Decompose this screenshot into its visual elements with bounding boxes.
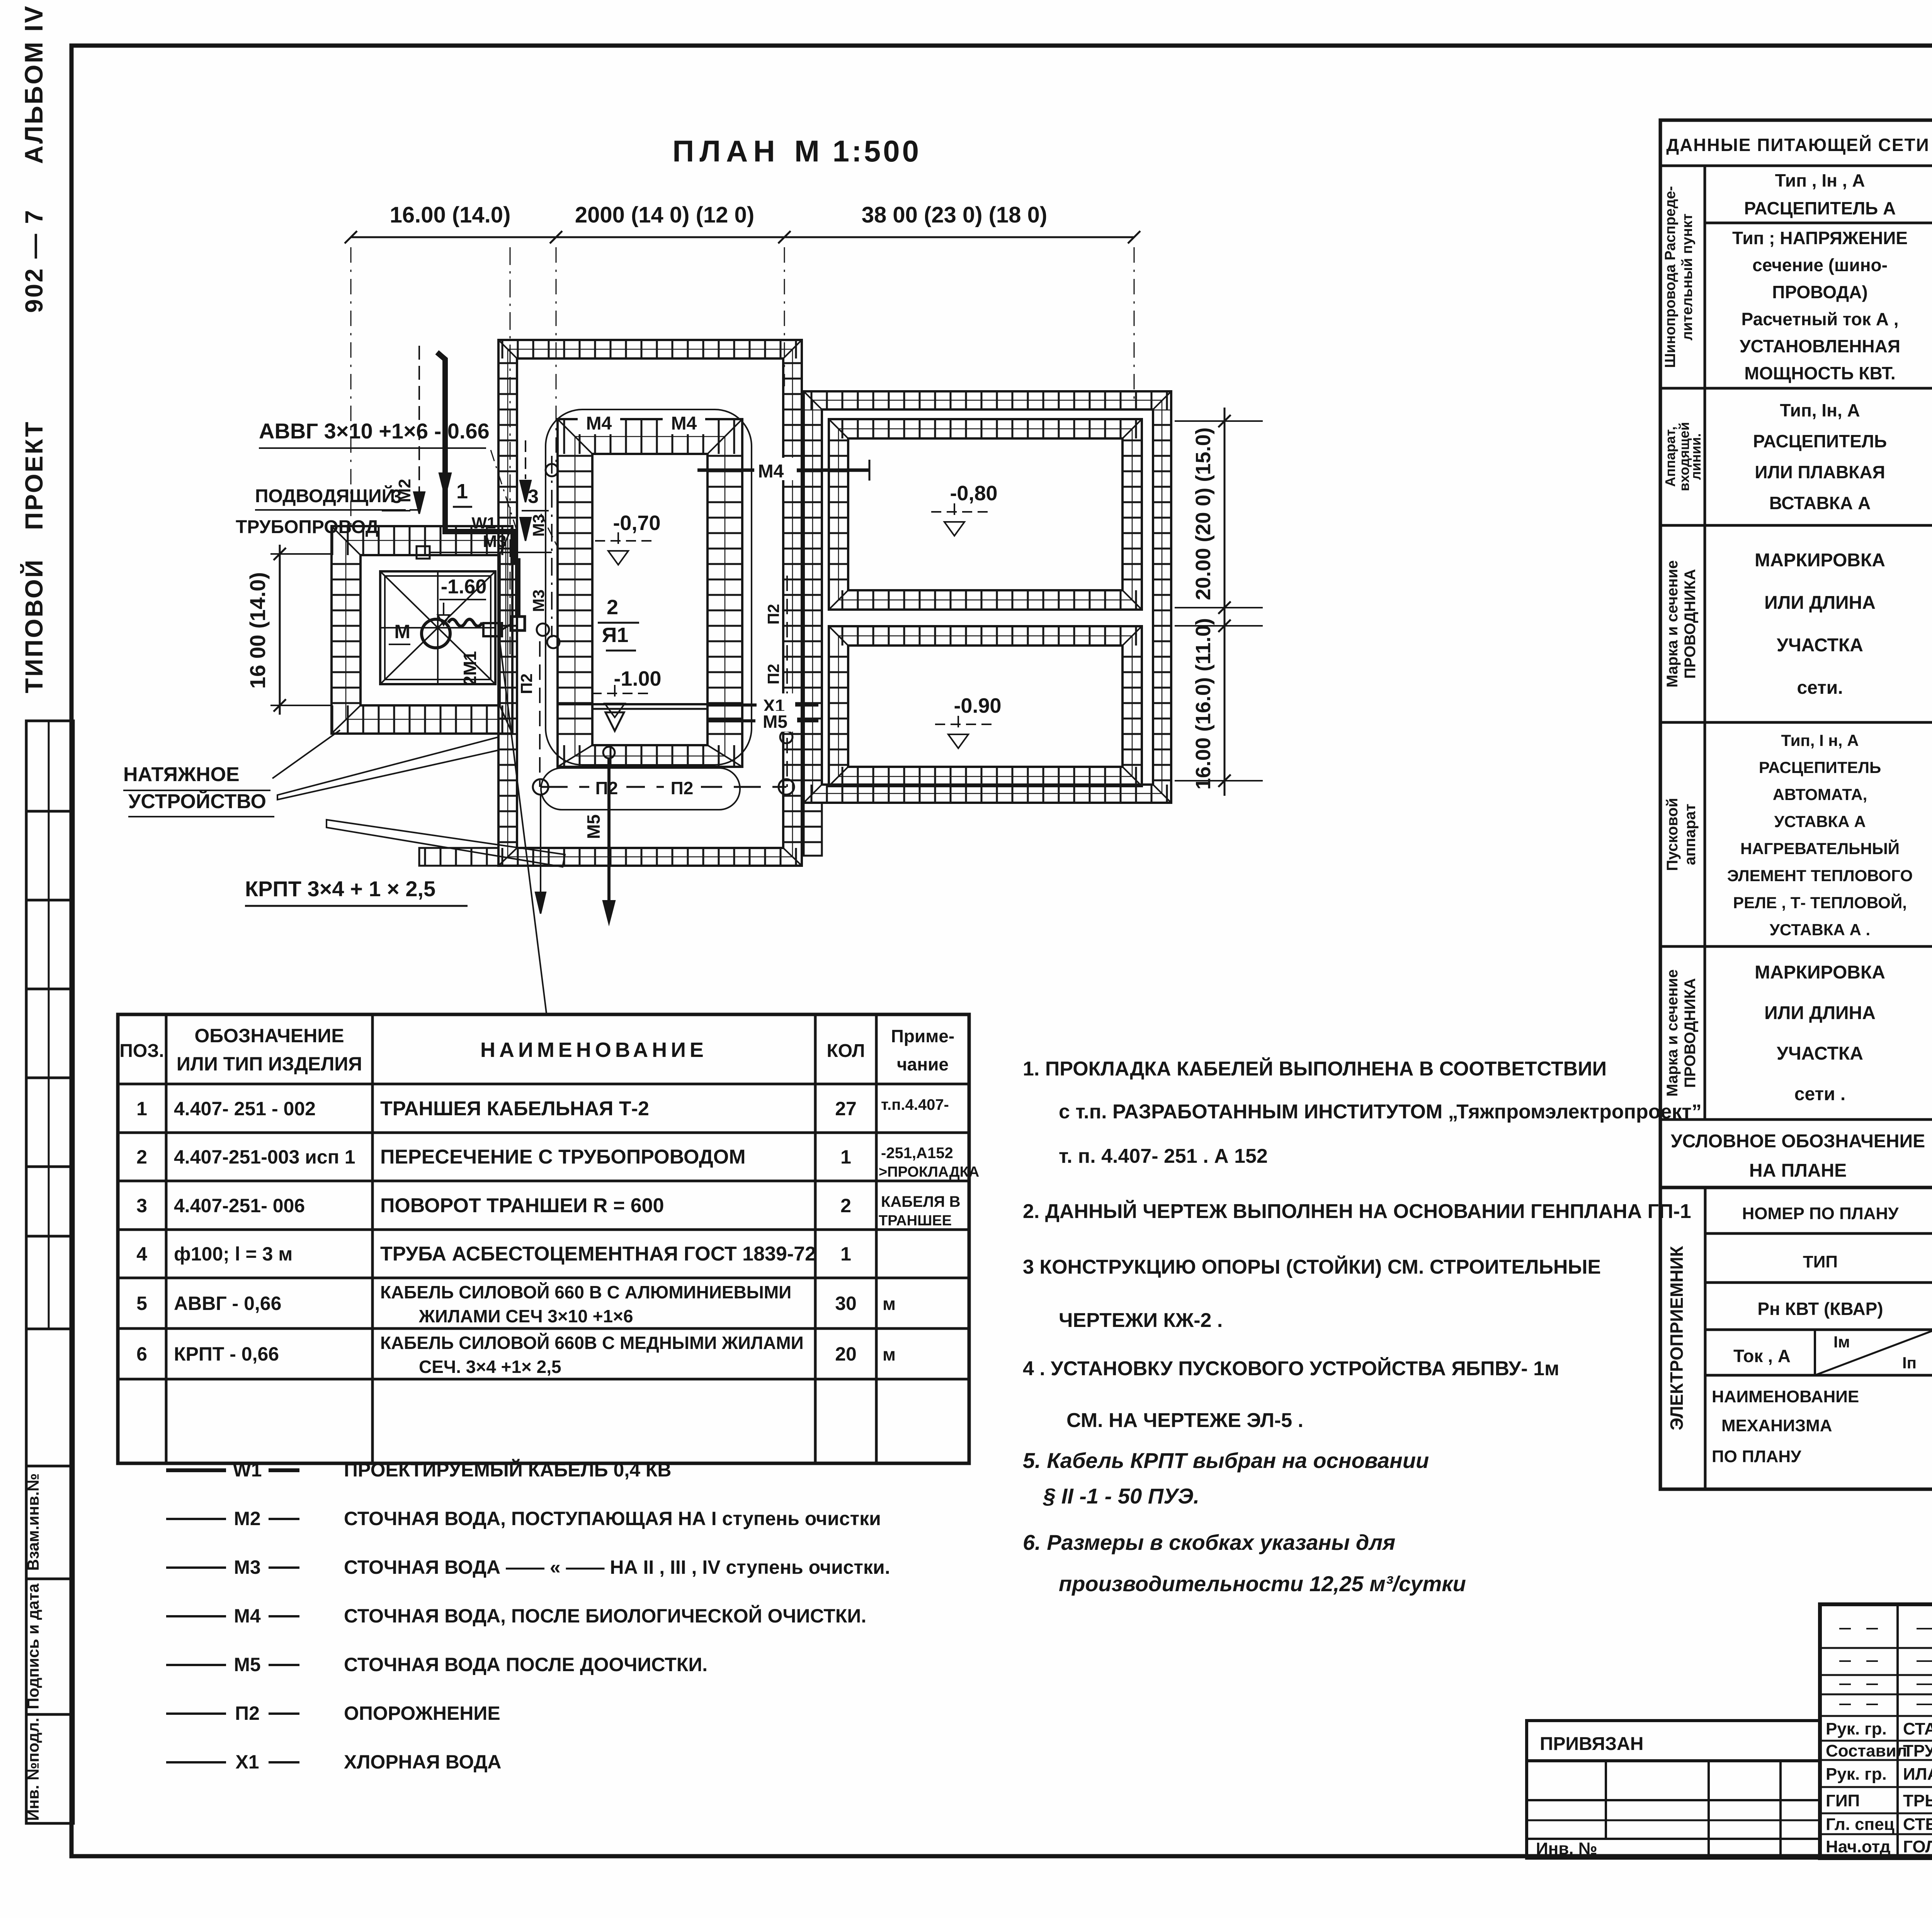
left drain arrow bbox=[540, 795, 541, 892]
svg-text:1: 1 bbox=[840, 1146, 851, 1168]
svg-text:АВВГ 3×10 +1×6 - 0.66: АВВГ 3×10 +1×6 - 0.66 bbox=[259, 419, 490, 443]
M5 crossing line bbox=[707, 719, 818, 722]
svg-text:4.407-251-003 исп 1: 4.407-251-003 исп 1 bbox=[174, 1146, 355, 1168]
svg-text:ТРАНШЕЯ КАБЕЛЬНАЯ Т-2: ТРАНШЕЯ КАБЕЛЬНАЯ Т-2 bbox=[380, 1097, 649, 1120]
specification table bbox=[118, 1014, 969, 1463]
top dimension line bbox=[351, 236, 1134, 238]
cable W1 thick run bbox=[437, 352, 518, 617]
svg-text:5. Кабель КРПТ выбран на ос: 5. Кабель КРПТ выбран на основании bbox=[1023, 1448, 1429, 1473]
svg-text:М4: М4 bbox=[234, 1605, 261, 1627]
svg-text:с т.п. РАЗРАБОТАННЫМ ИНСТИТ: с т.п. РАЗРАБОТАННЫМ ИНСТИТУТОМ „Тяжпром… bbox=[1059, 1101, 1702, 1123]
svg-text:ТРЫХАНКИНА: ТРЫХАНКИНА bbox=[1903, 1791, 1932, 1810]
svg-text:производительности 12,25 м³/су: производительности 12,25 м³/сутки bbox=[1059, 1571, 1466, 1596]
svg-text:М3: М3 bbox=[529, 514, 548, 537]
right dimension 20.00 bbox=[1224, 408, 1226, 796]
svg-text:1. ПРОКЛАДКА КАБЕЛЕЙ ВЫПОЛН: 1. ПРОКЛАДКА КАБЕЛЕЙ ВЫПОЛНЕНА В СООТВЕТ… bbox=[1023, 1057, 1607, 1080]
margin cell Взам.инв.№ bbox=[26, 1329, 73, 1466]
svg-text:30: 30 bbox=[835, 1293, 857, 1314]
svg-text:Составил: Составил bbox=[1826, 1741, 1907, 1760]
legend line М4 bbox=[166, 1615, 226, 1617]
svg-text:16 00 (14.0): 16 00 (14.0) bbox=[245, 572, 270, 689]
svg-text:ИЛАРИОНОВА: ИЛАРИОНОВА bbox=[1903, 1765, 1932, 1784]
M3 vertical line bbox=[551, 456, 553, 637]
svg-text:ГОЛЬЦМАН: ГОЛЬЦМАН bbox=[1903, 1837, 1932, 1856]
svg-text:Тип, I н, А: Тип, I н, А bbox=[1781, 731, 1859, 749]
cable trench line bbox=[500, 643, 547, 1016]
svg-text:СТОЧНАЯ ВОДА —— « —— НА II: СТОЧНАЯ ВОДА —— « —— НА II , III , IV ст… bbox=[344, 1556, 890, 1578]
svg-text:4: 4 bbox=[136, 1243, 147, 1265]
svg-text:38 00 (23 0) (18 0): 38 00 (23 0) (18 0) bbox=[862, 202, 1047, 228]
svg-text:М: М bbox=[394, 621, 410, 642]
svg-text:2. ДАННЫЙ ЧЕРТЕЖ ВЫПОЛНЕН: 2. ДАННЫЙ ЧЕРТЕЖ ВЫПОЛНЕН НА ОСНОВАНИИ Г… bbox=[1023, 1200, 1691, 1223]
link 2M1 to W1 bbox=[502, 624, 511, 630]
svg-text:2: 2 bbox=[136, 1146, 147, 1168]
svg-text:-1.00: -1.00 bbox=[614, 667, 661, 690]
svg-text:ПРОВОДНИКА: ПРОВОДНИКА bbox=[1682, 569, 1699, 679]
svg-text:СТАНКЕВИЧ: СТАНКЕВИЧ bbox=[1903, 1719, 1932, 1738]
svg-text:-1.60: -1.60 bbox=[441, 576, 487, 598]
row Нач.отд bbox=[1820, 1857, 1932, 1859]
svg-text:Рук. гр.: Рук. гр. bbox=[1826, 1765, 1887, 1784]
svg-text:УЧАСТКА: УЧАСТКА bbox=[1777, 635, 1863, 656]
svg-text:КОЛ: КОЛ bbox=[827, 1041, 865, 1061]
svg-text:2000 (14 0) (12 0): 2000 (14 0) (12 0) bbox=[575, 202, 754, 228]
svg-text:МАРКИРОВКА: МАРКИРОВКА bbox=[1755, 550, 1885, 571]
motor M1 circle bbox=[422, 619, 450, 648]
svg-text:Нач.отд: Нач.отд bbox=[1826, 1837, 1891, 1856]
legend line М2 bbox=[166, 1518, 226, 1520]
M3 drop arrow bbox=[525, 440, 526, 479]
legend line М3 bbox=[166, 1566, 226, 1569]
legend line М5 bbox=[166, 1664, 226, 1666]
svg-text:4 . УСТАНОВКУ ПУСКОВОГО УСТРОЙ: 4 . УСТАНОВКУ ПУСКОВОГО УСТРОЙСТВА ЯБПВУ… bbox=[1023, 1357, 1560, 1380]
svg-text:W1: W1 bbox=[472, 514, 496, 532]
P2 drain channel bbox=[541, 768, 740, 810]
svg-text:РЕЛЕ , Т- ТЕПЛОВОЙ,: РЕЛЕ , Т- ТЕПЛОВОЙ, bbox=[1733, 893, 1907, 912]
svg-text:ПЛАН: ПЛАН bbox=[672, 134, 780, 168]
P2 vertical left bbox=[539, 641, 541, 787]
svg-text:Х1: Х1 bbox=[235, 1751, 259, 1773]
svg-text:Шинопровода Распреде-: Шинопровода Распреде- bbox=[1662, 186, 1679, 368]
svg-text:М5: М5 bbox=[234, 1654, 260, 1675]
basin 2-Я1 wall bbox=[558, 419, 742, 454]
svg-text:УСТАВКА А .: УСТАВКА А . bbox=[1770, 921, 1870, 939]
wavy cable from M1 to 2M1 bbox=[448, 619, 482, 626]
svg-text:линии.: линии. bbox=[1688, 433, 1704, 480]
svg-text:3: 3 bbox=[136, 1195, 147, 1216]
svg-text:ИЛИ ПЛАВКАЯ: ИЛИ ПЛАВКАЯ bbox=[1755, 462, 1885, 482]
svg-text:ТИПОВОЙ: ТИПОВОЙ bbox=[20, 558, 48, 693]
right structure outer wall bbox=[804, 391, 1171, 409]
svg-text:П2: П2 bbox=[764, 604, 782, 625]
svg-text:ПРОВОДА): ПРОВОДА) bbox=[1772, 282, 1867, 302]
left basin diagonals bbox=[380, 571, 495, 684]
svg-text:ИЛИ ДЛИНА: ИЛИ ДЛИНА bbox=[1764, 593, 1876, 613]
svg-text:М2: М2 bbox=[234, 1508, 260, 1529]
svg-text:УСТРОЙСТВО: УСТРОЙСТВО bbox=[128, 790, 266, 813]
svg-text:НАГРЕВАТЕЛЬНЫЙ: НАГРЕВАТЕЛЬНЫЙ bbox=[1740, 839, 1900, 858]
P2 line between structures bbox=[786, 576, 788, 787]
svg-text:УСТАНОВЛЕННАЯ: УСТАНОВЛЕННАЯ bbox=[1740, 336, 1900, 356]
svg-text:ОБОЗНАЧЕНИЕ: ОБОЗНАЧЕНИЕ bbox=[194, 1025, 344, 1046]
svg-text:т.п.4.407-: т.п.4.407- bbox=[881, 1096, 949, 1113]
svg-text:МОЩНОСТЬ КВТ.: МОЩНОСТЬ КВТ. bbox=[1744, 363, 1895, 383]
feeding network table bbox=[1660, 120, 1932, 1187]
svg-text:2: 2 bbox=[840, 1195, 851, 1216]
svg-text:П2: П2 bbox=[764, 664, 782, 685]
svg-text:-0,80: -0,80 bbox=[950, 482, 997, 505]
M3 line from pit bbox=[429, 552, 552, 553]
svg-text:НА ПЛАНЕ: НА ПЛАНЕ bbox=[1749, 1160, 1847, 1181]
row Составил bbox=[1820, 1759, 1932, 1761]
svg-text:СТЕПАНЕНКО: СТЕПАНЕНКО bbox=[1903, 1815, 1932, 1834]
M2 riser bbox=[418, 346, 420, 506]
X1 crossing line bbox=[707, 703, 818, 707]
legend line П2 bbox=[166, 1712, 226, 1715]
svg-text:4.407-251- 006: 4.407-251- 006 bbox=[174, 1195, 305, 1216]
middle structure outer wall bbox=[498, 340, 802, 358]
svg-text:МАРКИРОВКА: МАРКИРОВКА bbox=[1755, 962, 1885, 983]
svg-text:1: 1 bbox=[840, 1243, 851, 1265]
row ГИП bbox=[1820, 1813, 1932, 1814]
svg-text:лительный пункт: лительный пункт bbox=[1679, 214, 1696, 341]
svg-text:ПОЗ.: ПОЗ. bbox=[119, 1041, 164, 1061]
svg-text:РАСЦЕПИТЕЛЬ: РАСЦЕПИТЕЛЬ bbox=[1753, 431, 1887, 451]
svg-text:РАСЦЕПИТЕЛЬ А: РАСЦЕПИТЕЛЬ А bbox=[1744, 198, 1896, 218]
svg-text:М3: М3 bbox=[529, 590, 548, 612]
svg-text:Инв. №: Инв. № bbox=[1536, 1839, 1597, 1858]
svg-text:Марка и сечение: Марка и сечение bbox=[1664, 560, 1681, 688]
margin stamp boxes bbox=[26, 721, 73, 1329]
svg-text:ПОДВОДЯЩИЙ: ПОДВОДЯЩИЙ bbox=[255, 485, 395, 506]
svg-text:§ II -1 - 50 ПУЭ.: § II -1 - 50 ПУЭ. bbox=[1043, 1484, 1199, 1508]
row Рук. гр. bbox=[1820, 1740, 1932, 1742]
svg-text:1: 1 bbox=[136, 1098, 147, 1120]
arrow подводящий bbox=[410, 509, 419, 511]
svg-text:сети.: сети. bbox=[1797, 678, 1843, 698]
margin cell Инв.№подл. bbox=[26, 1714, 73, 1823]
svg-text:20.00 (20 0) (15.0): 20.00 (20 0) (15.0) bbox=[1192, 427, 1215, 600]
right structure wall tail bbox=[804, 803, 822, 856]
svg-text:СТОЧНАЯ ВОДА ПОСЛЕ ДООЧИСТК: СТОЧНАЯ ВОДА ПОСЛЕ ДООЧИСТКИ. bbox=[344, 1654, 707, 1675]
svg-text:СМ. НА ЧЕРТЕЖЕ ЭЛ-5 .: СМ. НА ЧЕРТЕЖЕ ЭЛ-5 . bbox=[1066, 1409, 1303, 1432]
svg-text:М4: М4 bbox=[758, 461, 784, 482]
svg-text:ПРОВОДНИКА: ПРОВОДНИКА bbox=[1682, 978, 1699, 1088]
svg-text:3: 3 bbox=[528, 486, 539, 507]
svg-text:РАСЦЕПИТЕЛЬ: РАСЦЕПИТЕЛЬ bbox=[1759, 758, 1881, 776]
svg-text:ПО ПЛАНУ: ПО ПЛАНУ bbox=[1712, 1447, 1801, 1466]
svg-text:6. Размеры в скобках указан: 6. Размеры в скобках указаны для bbox=[1023, 1530, 1395, 1554]
svg-text:АВВГ - 0,66: АВВГ - 0,66 bbox=[174, 1293, 281, 1314]
svg-text:>ПРОКЛАДКА: >ПРОКЛАДКА bbox=[879, 1164, 979, 1180]
svg-text:М3: М3 bbox=[483, 532, 506, 551]
svg-text:т. п. 4.407- 251 . А 152: т. п. 4.407- 251 . А 152 bbox=[1059, 1145, 1268, 1167]
svg-text:1: 1 bbox=[456, 480, 468, 503]
svg-text:ПРОЕКТИРУЕМЫЙ КАБЕЛЬ 0,4 КВ: ПРОЕКТИРУЕМЫЙ КАБЕЛЬ 0,4 КВ bbox=[344, 1459, 672, 1481]
svg-text:Тип, Iн, А: Тип, Iн, А bbox=[1780, 400, 1860, 420]
svg-text:П2: П2 bbox=[517, 673, 536, 694]
svg-text:ОПОРОЖНЕНИЕ: ОПОРОЖНЕНИЕ bbox=[344, 1702, 500, 1724]
svg-text:ЧЕРТЕЖИ КЖ-2 .: ЧЕРТЕЖИ КЖ-2 . bbox=[1059, 1309, 1223, 1332]
M4 crossing line bbox=[697, 469, 869, 472]
svg-text:Iм: Iм bbox=[1833, 1333, 1850, 1351]
svg-text:П2: П2 bbox=[671, 778, 694, 798]
svg-text:Приме-: Приме- bbox=[891, 1026, 954, 1046]
svg-text:СТОЧНАЯ ВОДА, ПОСЛЕ БИОЛОГИ: СТОЧНАЯ ВОДА, ПОСЛЕ БИОЛОГИЧЕСКОЙ ОЧИСТК… bbox=[344, 1605, 866, 1627]
svg-text:АВТОМАТА,: АВТОМАТА, bbox=[1773, 785, 1867, 804]
svg-text:Подпись и дата: Подпись и дата bbox=[24, 1583, 42, 1709]
svg-text:3 КОНСТРУКЦИЮ ОПОРЫ (СТОЙК: 3 КОНСТРУКЦИЮ ОПОРЫ (СТОЙКИ) СМ. СТРОИТЕ… bbox=[1023, 1255, 1601, 1278]
svg-text:Рн КВТ (КВАР): Рн КВТ (КВАР) bbox=[1757, 1299, 1883, 1319]
privyazan box bbox=[1527, 1721, 1820, 1761]
svg-text:аппарат: аппарат bbox=[1682, 804, 1699, 865]
svg-text:М5: М5 bbox=[763, 712, 787, 732]
svg-text:КРПТ 3×4 + 1 × 2,5: КРПТ 3×4 + 1 × 2,5 bbox=[245, 877, 435, 901]
bottom P2 run bbox=[541, 786, 786, 788]
legend line W1 bbox=[166, 1468, 226, 1472]
svg-text:-0.90: -0.90 bbox=[954, 694, 1001, 717]
leader wedges bbox=[277, 737, 498, 800]
svg-text:МЕХАНИЗМА: МЕХАНИЗМА bbox=[1721, 1416, 1832, 1435]
M5 outfall arrow bbox=[603, 747, 615, 758]
svg-text:ХЛОРНАЯ ВОДА: ХЛОРНАЯ ВОДА bbox=[344, 1751, 502, 1773]
svg-text:м: м bbox=[883, 1344, 896, 1364]
svg-text:Iп: Iп bbox=[1902, 1354, 1917, 1372]
svg-text:Взам.инв.№: Взам.инв.№ bbox=[24, 1473, 42, 1571]
svg-text:Ток , А: Ток , А bbox=[1733, 1346, 1791, 1366]
svg-text:НАИМЕНОВАНИЕ: НАИМЕНОВАНИЕ bbox=[480, 1038, 707, 1062]
svg-text:3: 3 bbox=[391, 486, 402, 507]
svg-text:Пусковой: Пусковой bbox=[1664, 798, 1681, 871]
svg-text:-0,70: -0,70 bbox=[613, 511, 660, 535]
svg-text:Марка и сечение: Марка и сечение bbox=[1664, 969, 1681, 1097]
svg-text:УСТАВКА А: УСТАВКА А bbox=[1774, 812, 1866, 831]
svg-text:Тип ; НАПРЯЖЕНИЕ: Тип ; НАПРЯЖЕНИЕ bbox=[1732, 228, 1908, 248]
svg-text:Тип , Iн , А: Тип , Iн , А bbox=[1775, 170, 1865, 190]
left dimension 16.00(14.0) bbox=[279, 545, 281, 715]
aerator 2M1 box bbox=[483, 623, 502, 636]
svg-text:ТИП: ТИП bbox=[1803, 1252, 1838, 1271]
svg-text:М4: М4 bbox=[586, 413, 612, 434]
svg-text:Инв. №подл.: Инв. №подл. bbox=[24, 1718, 42, 1821]
legend line Х1 bbox=[166, 1761, 226, 1763]
svg-text:УСЛОВНОЕ ОБОЗНАЧЕНИЕ: УСЛОВНОЕ ОБОЗНАЧЕНИЕ bbox=[1671, 1131, 1925, 1152]
svg-text:КАБЕЛЯ В: КАБЕЛЯ В bbox=[881, 1193, 961, 1210]
svg-text:М5: М5 bbox=[583, 814, 604, 839]
svg-text:ТРУШИНА: ТРУШИНА bbox=[1903, 1741, 1932, 1760]
svg-text:Я1: Я1 bbox=[602, 623, 629, 647]
svg-text:ЖИЛАМИ СЕЧ 3×10 +1×6: ЖИЛАМИ СЕЧ 3×10 +1×6 bbox=[418, 1306, 633, 1326]
svg-text:КАБЕЛЬ СИЛОВОЙ 660В С МЕДНЫМИ: КАБЕЛЬ СИЛОВОЙ 660В С МЕДНЫМИ ЖИЛАМИ bbox=[380, 1333, 804, 1353]
svg-text:Гл. спец: Гл. спец bbox=[1826, 1815, 1895, 1834]
svg-text:ЭЛЕМЕНТ ТЕПЛОВОГО: ЭЛЕМЕНТ ТЕПЛОВОГО bbox=[1727, 866, 1913, 885]
svg-text:27: 27 bbox=[835, 1098, 857, 1120]
svg-text:ТРУБОПРОВОД: ТРУБОПРОВОД bbox=[236, 517, 379, 537]
leader from АВВГ label bbox=[491, 450, 517, 531]
svg-text:М 1:500: М 1:500 bbox=[794, 134, 921, 168]
svg-text:6: 6 bbox=[136, 1343, 147, 1365]
svg-text:ГИП: ГИП bbox=[1826, 1791, 1860, 1810]
left basin outer embankment bbox=[332, 526, 512, 555]
svg-text:АЛЬБОМ IV: АЛЬБОМ IV bbox=[19, 5, 48, 164]
svg-text:м: м bbox=[883, 1294, 896, 1314]
svg-text:КРПТ - 0,66: КРПТ - 0,66 bbox=[174, 1343, 279, 1365]
svg-text:16.00 (16.0) (11.0): 16.00 (16.0) (11.0) bbox=[1192, 618, 1215, 790]
row Рук. гр. bbox=[1820, 1786, 1932, 1788]
svg-text:ПЕРЕСЕЧЕНИЕ С ТРУБОПРОВОДОМ: ПЕРЕСЕЧЕНИЕ С ТРУБОПРОВОДОМ bbox=[380, 1146, 746, 1168]
svg-text:КАБЕЛЬ СИЛОВОЙ 660 В С АЛЮМИНИ: КАБЕЛЬ СИЛОВОЙ 660 В С АЛЮМИНИЕВЫМИ bbox=[380, 1282, 791, 1302]
svg-text:СЕЧ. 3×4 +1× 2,5: СЕЧ. 3×4 +1× 2,5 bbox=[419, 1357, 561, 1377]
svg-text:М3: М3 bbox=[234, 1556, 260, 1578]
leader to pit corner bbox=[272, 730, 340, 778]
svg-text:20: 20 bbox=[835, 1343, 857, 1365]
svg-text:НОМЕР ПО ПЛАНУ: НОМЕР ПО ПЛАНУ bbox=[1742, 1204, 1899, 1223]
svg-text:УЧАСТКА: УЧАСТКА bbox=[1777, 1043, 1863, 1064]
consumer block bbox=[1660, 1187, 1932, 1489]
svg-text:902 — 7: 902 — 7 bbox=[20, 209, 48, 313]
svg-text:ПРОЕКТ: ПРОЕКТ bbox=[20, 420, 48, 530]
svg-text:4.407- 251 - 002: 4.407- 251 - 002 bbox=[174, 1098, 316, 1120]
M4 loop around basin bbox=[546, 409, 752, 765]
svg-text:ф100; l = 3 м: ф100; l = 3 м bbox=[174, 1243, 293, 1265]
svg-text:ИЛИ ДЛИНА: ИЛИ ДЛИНА bbox=[1764, 1003, 1876, 1023]
svg-text:2: 2 bbox=[607, 596, 618, 619]
svg-text:ТРАНШЕЕ: ТРАНШЕЕ bbox=[879, 1213, 952, 1229]
svg-text:П2: П2 bbox=[235, 1702, 260, 1724]
left basin wall bbox=[380, 571, 495, 684]
svg-text:НАТЯЖНОЕ: НАТЯЖНОЕ bbox=[123, 763, 240, 786]
svg-text:ПРИВЯЗАН: ПРИВЯЗАН bbox=[1540, 1734, 1643, 1754]
svg-text:П2: П2 bbox=[595, 778, 618, 798]
svg-text:ПОВОРОТ ТРАНШЕИ R = 600: ПОВОРОТ ТРАНШЕИ R = 600 bbox=[380, 1194, 664, 1217]
svg-text:5: 5 bbox=[136, 1293, 147, 1314]
svg-text:сечение (шино-: сечение (шино- bbox=[1752, 255, 1888, 275]
svg-text:-251,А152: -251,А152 bbox=[881, 1145, 953, 1162]
right lower pond wall bbox=[829, 626, 1142, 646]
svg-text:ВСТАВКА А: ВСТАВКА А bbox=[1769, 493, 1871, 513]
junction square on W1 bbox=[511, 617, 525, 630]
svg-text:НАИМЕНОВАНИЕ: НАИМЕНОВАНИЕ bbox=[1712, 1387, 1859, 1406]
row Гл. спец bbox=[1820, 1833, 1932, 1835]
svg-text:сети .: сети . bbox=[1794, 1084, 1845, 1104]
middle structure lower-left channel bbox=[419, 848, 498, 866]
svg-text:Расчетный ток А ,: Расчетный ток А , bbox=[1742, 309, 1899, 329]
svg-text:2М1: 2М1 bbox=[460, 651, 480, 685]
svg-text:Рук. гр.: Рук. гр. bbox=[1826, 1719, 1887, 1738]
svg-text:ТРУБА АСБЕСТОЦЕМЕНТНАЯ ГОСТ: ТРУБА АСБЕСТОЦЕМЕНТНАЯ ГОСТ 1839-72 bbox=[380, 1243, 816, 1265]
svg-text:Аппарат,: Аппарат, bbox=[1662, 426, 1678, 487]
svg-text:ДАННЫЕ ПИТАЮЩЕЙ СЕТИ: ДАННЫЕ ПИТАЮЩЕЙ СЕТИ bbox=[1666, 135, 1929, 155]
svg-text:чание: чание bbox=[897, 1054, 949, 1074]
title block bbox=[1820, 1604, 1932, 1858]
svg-text:16.00 (14.0): 16.00 (14.0) bbox=[390, 202, 511, 228]
svg-text:ИЛИ ТИП ИЗДЕЛИЯ: ИЛИ ТИП ИЗДЕЛИЯ bbox=[177, 1053, 362, 1075]
svg-text:М4: М4 bbox=[671, 413, 697, 434]
svg-text:ЭЛЕКТРОПРИЕМНИК: ЭЛЕКТРОПРИЕМНИК bbox=[1667, 1245, 1687, 1430]
basin cross wall bbox=[558, 703, 742, 705]
margin cell Подпись и дата bbox=[26, 1579, 73, 1714]
svg-text:СТОЧНАЯ ВОДА, ПОСТУПАЮЩАЯ Н: СТОЧНАЯ ВОДА, ПОСТУПАЮЩАЯ НА I ступень о… bbox=[344, 1508, 881, 1529]
M4 labels on loop bbox=[578, 413, 620, 434]
svg-text:W1: W1 bbox=[233, 1459, 262, 1481]
right upper pond wall bbox=[829, 419, 1142, 438]
extension lines of top dimension bbox=[350, 247, 352, 525]
